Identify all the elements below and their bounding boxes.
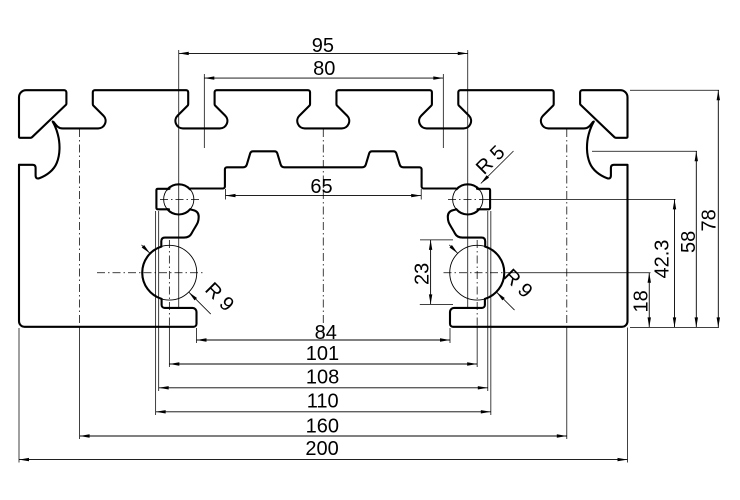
dimension 42.3 line [673, 199, 676, 327]
svg-text:95: 95 [312, 35, 334, 57]
dimension 18 line [648, 273, 651, 328]
svg-text:65: 65 [310, 176, 332, 198]
extension line 160 left [79, 327, 81, 439]
channel ceiling with two ribs [191, 151, 457, 188]
leader line R5 [481, 151, 514, 184]
extension line 58 [592, 150, 697, 152]
extension line 108 right [487, 211, 489, 391]
profile body outline with T-slots [19, 90, 628, 327]
right screw boss R9 thick arc [485, 247, 504, 299]
right R5 centerline horizontal [448, 198, 488, 200]
svg-text:R 9: R 9 [200, 278, 238, 316]
leader arrow left R9 upper [141, 245, 150, 254]
label 42.3 [652, 240, 674, 279]
extension line 200 left [18, 328, 20, 463]
label 84 [315, 322, 337, 344]
svg-text:R 5: R 5 [472, 141, 510, 179]
dimension 84 line [197, 338, 451, 341]
dimension 80 line [204, 76, 443, 79]
svg-text:18: 18 [631, 290, 653, 312]
slot 1 centerline [79, 129, 81, 327]
extension line 80 left [203, 74, 205, 148]
right leg neck groove [448, 209, 485, 246]
extension line 84 left [196, 328, 198, 343]
extension line 18 [510, 272, 651, 274]
extension line 65 right [420, 189, 422, 200]
leader arrow right R9 upper [449, 245, 458, 254]
extension line bottom right [630, 326, 719, 328]
left R9 centerline horizontal [97, 272, 203, 274]
svg-text:42.3: 42.3 [652, 240, 674, 279]
svg-text:110: 110 [307, 391, 339, 413]
dimension 65 line [226, 194, 422, 197]
left R5 centerline horizontal [160, 198, 199, 200]
right R9 centerline horizontal [444, 272, 511, 274]
left R5 centerline vertical [178, 50, 180, 308]
extension line 23 top [420, 239, 453, 241]
dimension 160 line [80, 434, 567, 437]
svg-text:58: 58 [678, 231, 700, 253]
left leg neck groove [161, 209, 198, 246]
label 110 [307, 391, 339, 413]
right R5 boss circle [453, 184, 483, 214]
dimension 110 line [156, 410, 491, 413]
label R5 [472, 141, 510, 179]
extension line 101 left [168, 327, 170, 367]
extension line 23 bottom [420, 303, 453, 305]
svg-text:80: 80 [313, 58, 335, 80]
label 80 [313, 58, 335, 80]
dimension 200 line [19, 458, 628, 461]
extension line 78 top [630, 89, 719, 91]
right R5 centerline vertical [467, 50, 469, 308]
extension line 65 left [225, 189, 227, 200]
label 200 [305, 438, 338, 460]
left screw boss R9 thin circle [142, 245, 197, 300]
extension line 80 right [442, 74, 444, 148]
svg-text:200: 200 [305, 438, 338, 460]
svg-text:78: 78 [699, 209, 721, 231]
left R9 centerline vertical [168, 240, 170, 327]
leader line left R9 [189, 292, 211, 314]
label 18 [631, 290, 653, 312]
svg-text:101: 101 [306, 343, 339, 365]
extension line 200 right [627, 328, 629, 463]
left R5 boss circle [164, 184, 194, 214]
slot 3 centerline [322, 129, 324, 340]
dimension 95 line [179, 52, 468, 55]
extension line 110 right [490, 211, 492, 415]
dimension 78 line [717, 90, 720, 327]
left screw boss R9 thick arc [142, 247, 161, 299]
dimension 58 line [695, 151, 698, 327]
label 23 [412, 263, 434, 285]
left keyway tab [156, 189, 169, 210]
dimension 108 line [159, 386, 488, 389]
slot 5 centerline [566, 129, 568, 327]
label 78 [699, 209, 721, 231]
extension line 101 right [476, 327, 478, 367]
label R9 left [200, 278, 238, 316]
label 108 [306, 367, 339, 389]
label 101 [306, 343, 339, 365]
label 160 [306, 415, 339, 437]
extension line 42.3 [487, 198, 676, 200]
label 65 [310, 176, 332, 198]
extension line 108 left [158, 211, 160, 391]
right R9 centerline vertical [476, 240, 478, 327]
dimension 23 line [429, 240, 432, 305]
right keyway tab [477, 189, 490, 210]
svg-text:108: 108 [306, 367, 339, 389]
svg-text:84: 84 [315, 322, 337, 344]
extension line 110 left [155, 211, 157, 415]
dimension 101 line [169, 362, 477, 365]
right screw boss R9 thin circle [450, 245, 505, 300]
label 58 [678, 231, 700, 253]
label R9 right [499, 265, 537, 303]
label 95 [312, 35, 334, 57]
profile top-left corner block [19, 90, 66, 138]
svg-text:160: 160 [306, 415, 339, 437]
leader line right R9 [497, 292, 515, 310]
profile bottom-left outline and left foot [19, 165, 197, 327]
extension line 160 right [566, 327, 568, 439]
extension line 84 right [449, 328, 451, 343]
svg-text:23: 23 [412, 263, 434, 285]
profile top-right corner block [580, 90, 627, 138]
